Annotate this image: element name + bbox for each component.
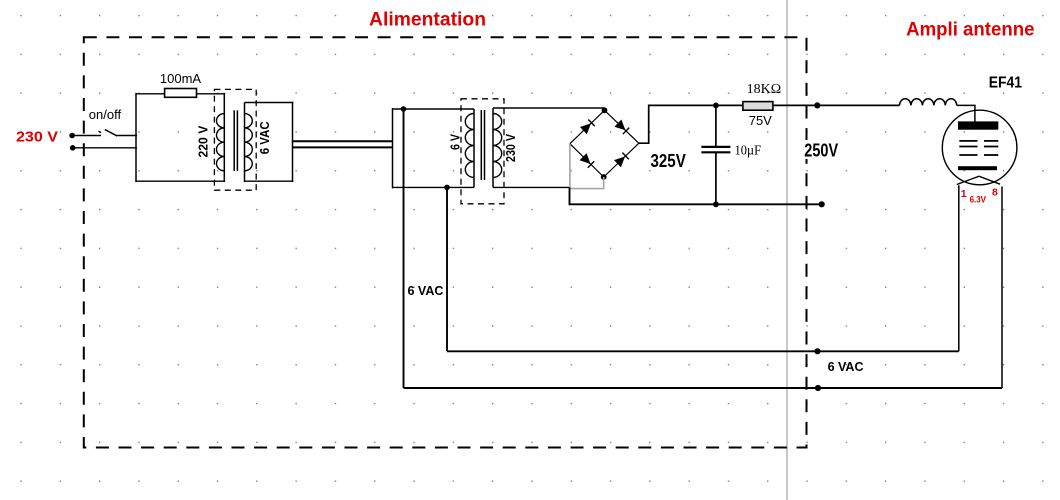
tube anode plate [958,121,998,129]
svg-text:6 V: 6 V [447,134,462,150]
wire T1 secondary top lead [245,102,294,104]
wire T1 primary bottom lead [136,180,224,182]
wire T1 loop right vertical [292,102,294,183]
label 250V background [801,140,841,159]
wire pair lower to T2 [293,146,393,148]
wire T2 primary top lead [393,108,475,110]
terminal node 0V rail end [819,201,825,207]
svg-text:18KΩ: 18KΩ [747,82,782,97]
svg-text:6 VAC: 6 VAC [828,360,864,374]
junction node cap bottom [713,201,719,207]
terminal dot line [69,133,75,139]
wire line terminal to switch [72,135,101,137]
bridge rectifier edges [570,110,639,177]
wire pin8 heater down [1001,187,1003,389]
transformer T2 secondary winding [493,114,502,178]
tube cathode bar [958,166,997,170]
junction node 6VAC bottom [444,185,450,191]
svg-text:6 VAC: 6 VAC [257,121,272,155]
inductor L1 [900,99,957,106]
wire T1 loop left vertical [135,93,137,182]
diode D2 top-right [614,120,629,135]
wire coil to tube [957,105,975,122]
svg-text:325V: 325V [651,151,686,171]
svg-text:EF41: EF41 [989,75,1023,92]
wire 6VAC rail upper [447,350,959,352]
gray return wire bridge [570,144,604,189]
wire T2 secondary bottom lead [493,186,570,188]
transformer T1 secondary lead line [244,103,246,183]
terminal dot neutral [70,145,76,151]
wire T1 secondary bottom lead [245,180,294,182]
wire fuse to T1 primary [197,93,226,95]
wire switch to T1 loop [117,135,138,137]
transformer T1 dashed box [214,89,256,190]
wire T2 secondary top lead to bridge [493,107,605,109]
junction node 6VAC top [401,106,407,112]
svg-text:6 VAC: 6 VAC [408,284,444,298]
junction node cap top [713,103,719,109]
tube grid dashes [959,141,998,155]
diode D1 top-left [580,120,595,135]
diode D3 bottom-left [580,153,595,168]
wire bridge bottom to 0V rail [570,187,822,204]
wire 6VAC vertical 2 [446,187,448,351]
svg-text:Ampli antenne: Ampli antenne [906,18,1034,40]
wire T2 primary bottom lead [393,186,475,188]
fuse F1 100mA [165,89,197,98]
transformer T2 dashed box [461,99,504,204]
junction node bridge top [602,107,608,113]
tube bottom chevron [957,176,1000,184]
transformer T2 primary lead line [473,109,475,187]
svg-text:10µF: 10µF [735,144,762,159]
svg-text:220 V: 220 V [195,125,210,157]
svg-text:230 V: 230 V [16,129,58,145]
wire T1 top to fuse [136,93,165,95]
transformer T2 core [481,110,484,180]
transformer T1 core [234,110,237,171]
transformer T2 primary winding [465,114,474,178]
transformer T1 secondary winding [245,114,253,171]
capacitor C1 [701,105,730,204]
diode D4 bottom-right [614,153,629,168]
wire bridge right to top rail [639,105,743,143]
transformer T1 primary lead line [223,93,225,182]
junction node 250V rail [814,102,820,108]
tube V1 envelope [942,110,1017,185]
svg-text:1: 1 [961,188,967,200]
svg-text:8: 8 [992,186,998,198]
junction node rail upper [814,348,820,354]
wire pair upper to T2 [293,140,393,142]
resistor R1 18K [743,102,773,111]
svg-text:6.3V: 6.3V [970,194,986,204]
svg-text:Alimentation: Alimentation [369,10,486,31]
svg-text:230 V: 230 V [503,134,518,162]
wire 6VAC rail lower [404,387,1003,389]
switch on/off [99,130,118,136]
svg-text:100mA: 100mA [160,71,202,86]
transformer T2 secondary lead line [492,108,494,187]
svg-text:250V: 250V [804,140,838,160]
svg-text:on/off: on/off [89,107,122,122]
wire neutral to T1 loop [73,147,137,149]
Alimentation enclosure (dashed) [84,37,807,447]
wire resistor to coil [773,104,900,106]
transformer T1 primary winding [216,114,224,171]
svg-text:75V: 75V [749,113,772,128]
junction node rail lower [815,385,821,391]
page divider line [786,0,788,500]
wire 6VAC vertical 1 [403,109,405,388]
junction node bridge bottom [601,174,607,180]
wire pin1 heater down [958,185,960,351]
wire T2 loop left vertical [392,108,394,188]
